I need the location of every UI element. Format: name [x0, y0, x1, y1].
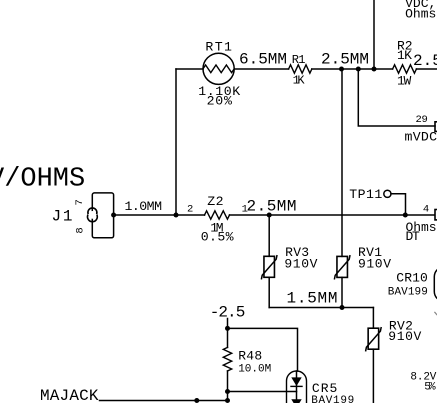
svg-text:J1: J1 [52, 208, 73, 226]
svg-text:7: 7 [74, 199, 86, 205]
svg-text:1W: 1W [397, 73, 411, 88]
svg-text:2.5MM: 2.5MM [247, 198, 297, 216]
svg-text:R48: R48 [238, 348, 262, 363]
svg-text:910V: 910V [388, 329, 421, 344]
svg-text:1.0MM: 1.0MM [125, 199, 163, 214]
svg-text:2.5MM: 2.5MM [413, 52, 437, 70]
svg-text:20%: 20% [207, 94, 232, 109]
svg-text:10.0M: 10.0M [238, 364, 271, 376]
svg-text:-2.5: -2.5 [210, 304, 246, 322]
svg-text:1K: 1K [397, 48, 412, 63]
svg-text:2: 2 [187, 204, 193, 216]
svg-text:BAV199: BAV199 [311, 395, 354, 403]
svg-text:Z2: Z2 [207, 194, 223, 209]
svg-text:MAJACK: MAJACK [40, 387, 99, 403]
svg-text:RT1: RT1 [205, 40, 232, 55]
svg-text:910V: 910V [284, 257, 317, 272]
svg-text:Ohms: Ohms [405, 7, 436, 22]
svg-text:6.5MM: 6.5MM [239, 51, 287, 69]
svg-text:1K: 1K [293, 73, 306, 87]
svg-text:1.5MM: 1.5MM [287, 290, 338, 308]
svg-text:5%: 5% [424, 382, 436, 394]
svg-text:2.5MM: 2.5MM [321, 51, 369, 69]
svg-text:V/OHMS: V/OHMS [0, 165, 85, 195]
svg-text:8: 8 [74, 227, 86, 233]
svg-text:0.5%: 0.5% [201, 230, 234, 245]
svg-text:mVDC: mVDC [405, 130, 437, 145]
svg-text:R1: R1 [292, 53, 306, 67]
svg-text:4: 4 [423, 204, 429, 216]
svg-text:CR10: CR10 [396, 271, 428, 286]
svg-text:910V: 910V [358, 257, 391, 272]
svg-text:DT: DT [406, 229, 420, 244]
svg-text:29: 29 [416, 114, 428, 126]
svg-text:BAV199: BAV199 [388, 287, 428, 299]
svg-text:TP11: TP11 [349, 187, 382, 202]
